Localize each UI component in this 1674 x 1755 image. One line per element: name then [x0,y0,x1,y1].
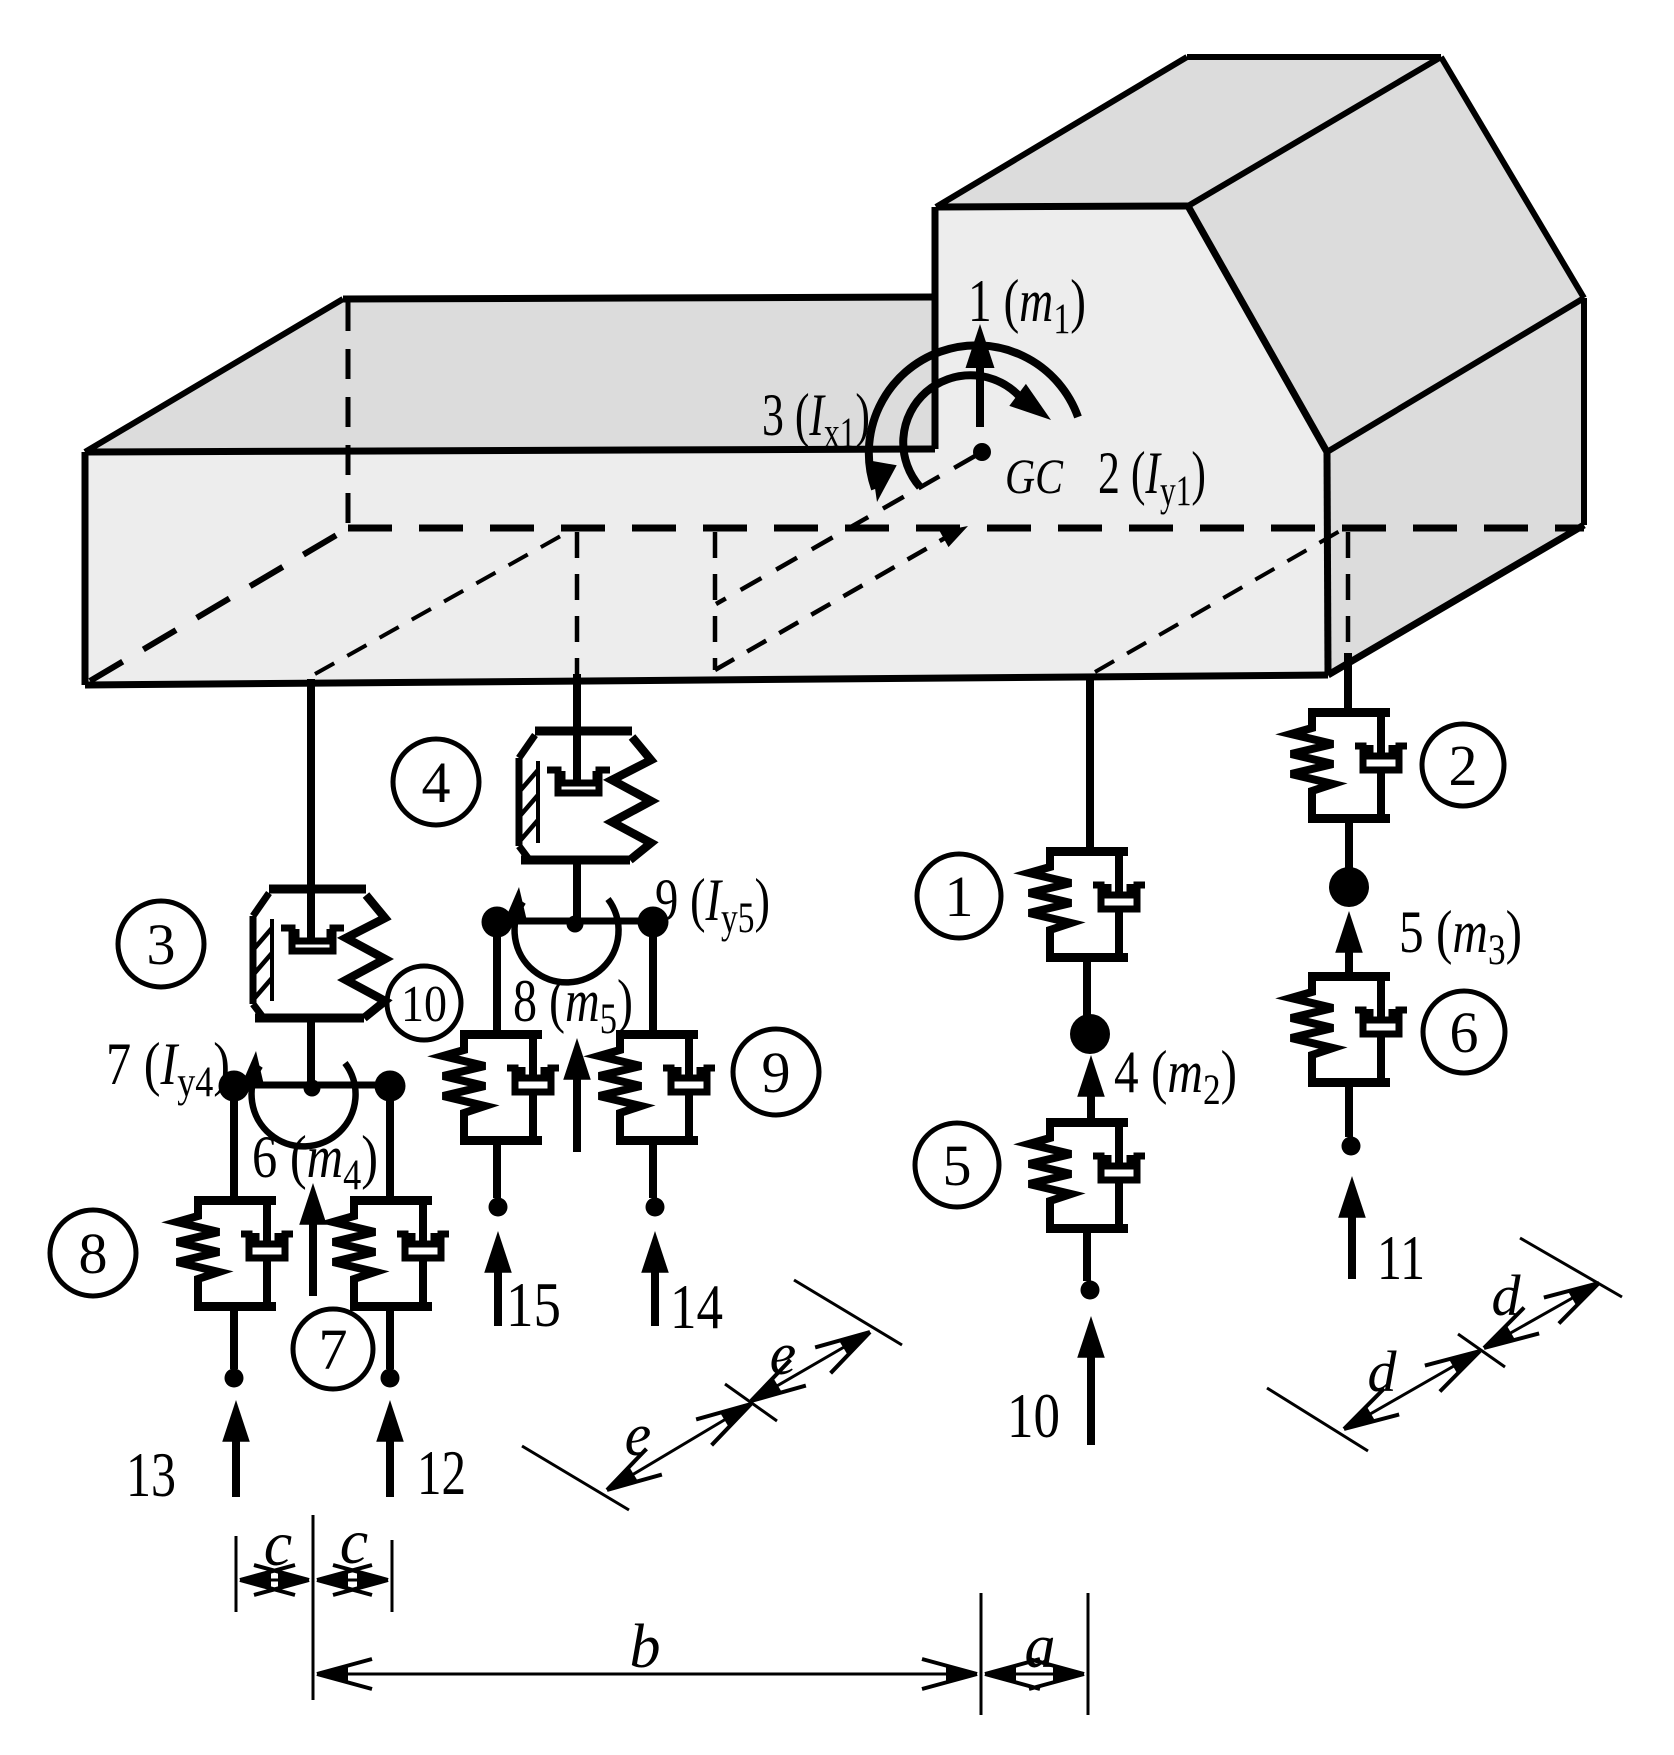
dim arrowheads b [317,1659,372,1689]
dimension b [317,1673,977,1676]
pitch arc 2 (Iy1) [903,375,1021,487]
svg-text:15: 15 [506,1269,561,1340]
wire unit 3 to pivot [307,1018,315,1085]
hidden lateral arrow on bottom face [715,534,952,670]
witness line below 12 [391,1540,394,1612]
circle label 4 [393,739,479,825]
node 14 [646,1198,665,1217]
edge: windshield slope front [1188,206,1327,452]
circle label 7 [293,1309,373,1389]
svg-text:4: 4 [422,750,451,815]
svg-text:GC: GC [1005,448,1064,504]
spring-damper unit 6 [1291,977,1407,1084]
spring-damper unit 1 [1029,852,1145,959]
circle label 9 [733,1029,819,1115]
dimension a [985,1673,1084,1676]
spring-damper unit 7 [333,1201,449,1308]
input arrow 13 [232,1438,240,1497]
wire unit 10 to node 15 [493,1145,501,1198]
hidden construction lines [315,456,1348,674]
svg-text:5 (m3): 5 (m3) [1399,899,1522,974]
witness line below 13 [235,1536,238,1612]
node 12 [381,1369,400,1388]
circle label 1 [917,854,1001,938]
svg-text:11: 11 [1377,1222,1425,1293]
input arrow 15 [494,1270,502,1326]
svg-text:c: c [340,1506,368,1577]
edge: cab top-left lateral [936,57,1187,207]
hidden edge: bottom left lateral [90,530,345,681]
hidden lateral line: axle 1-2 [1095,528,1345,672]
edge: windshield back slope [1441,57,1584,298]
edge: bed front-bottom [85,675,1328,685]
hidden lateral line: axle 3-4 [315,528,575,674]
svg-text:1: 1 [945,864,974,929]
circle label 10 [387,966,461,1040]
input arrow 14 [651,1270,659,1326]
edge: nose bottom lateral [1328,525,1584,675]
circle label 8 [50,1210,136,1296]
node 15 [489,1198,508,1217]
hidden rod of unit 4 [575,532,580,674]
dim arrowheads a [985,1659,1040,1689]
force arrow 4 (m2) [1087,1092,1095,1118]
edge: bed left vertical [82,452,89,685]
wire unit 6 to node 11 [1345,1087,1353,1137]
heave arrow 1 (m1) [976,368,984,427]
force arrow 8 (m5) [573,1078,581,1152]
svg-text:13: 13 [126,1439,176,1510]
body: cab front face [936,206,1327,452]
wire unit 2 to mass node 5 (m3) [1345,823,1353,870]
mass node 4 (m2) [1070,1014,1110,1054]
wire unit 7 to node 12 [386,1311,394,1369]
body: windshield face [1188,57,1584,452]
svg-text:7 (Iy4): 7 (Iy4) [106,1031,230,1106]
pivot bar 7 (Iy4) [219,1050,406,1146]
svg-text:6: 6 [1450,1000,1479,1065]
spring-damper unit 2 [1291,713,1407,820]
svg-text:c: c [264,1508,292,1579]
edge: nose right vertical [1581,298,1587,525]
hidden lateral line: GC axis [716,456,975,604]
wire unit 5 to node 10 [1083,1233,1091,1281]
spring-damper unit 8 [177,1201,293,1308]
svg-text:10: 10 [1007,1380,1060,1451]
svg-text:d: d [1492,1263,1522,1328]
mass node 5 (m3) [1329,867,1369,907]
roll arc 3 (Ix1) [869,345,1078,489]
wire pivot to unit 10 [493,936,501,1030]
GC dot [973,443,991,461]
svg-text:e: e [625,1402,652,1468]
wire pivot to unit 9 [649,936,657,1030]
d dimension lines [1344,1351,1480,1429]
node 11 [1342,1137,1361,1156]
body: cab roof face [936,57,1441,207]
spring-damper unit 5 [1029,1123,1145,1230]
circle label 6 [1423,991,1505,1073]
wire body to unit 1 [1086,674,1094,847]
witness line center assembly [312,1515,315,1700]
spring-damper unit 9 [599,1035,715,1142]
witness line b/a [980,1593,983,1715]
svg-text:a: a [1025,1613,1056,1681]
svg-text:8: 8 [79,1221,108,1286]
svg-text:d: d [1368,1339,1398,1404]
edge: bed front-top [85,449,935,452]
body: bed front face [85,446,1328,685]
svg-text:12: 12 [417,1437,466,1508]
witness line a right [1087,1593,1090,1715]
svg-text:6 (m4): 6 (m4) [252,1124,378,1199]
node 10 [1081,1281,1100,1300]
edge: cab/nose front-right vertical [1327,452,1328,675]
svg-text:7: 7 [319,1317,348,1382]
e dimension lines [607,1404,751,1490]
body: nose front face [1327,298,1584,675]
dim arrowheads e [599,1449,662,1503]
pivot bar 9 (Iy5) [482,886,669,982]
hidden edge: bottom back [348,525,1584,532]
edge: roof/windshield lateral [1188,57,1441,206]
circle label 5 [915,1123,999,1207]
hidden vertical below GC [713,532,718,670]
force arrow 6 (m4) [309,1222,317,1296]
svg-text:9 (Iy5): 9 (Iy5) [655,867,770,942]
dimension c right [317,1579,388,1582]
svg-text:2: 2 [1449,733,1478,798]
e dimension witness slashes [522,1446,629,1510]
dim arrowheads c [240,1565,295,1595]
wire pivot to unit 7 [386,1100,394,1196]
circle label 3 [118,901,204,987]
svg-text:4 (m2): 4 (m2) [1114,1039,1237,1114]
svg-text:10: 10 [401,976,447,1033]
force arrow 5 (m3) [1345,950,1353,972]
hidden edge: bed back-left vertical [346,301,351,527]
spring-damper unit 4 [519,731,651,860]
spring-damper unit 3 [253,889,385,1018]
svg-text:5: 5 [943,1133,972,1198]
input arrow 11 [1348,1215,1356,1279]
wire body to unit 3 [307,679,315,889]
wire unit 4 to pivot [573,860,581,921]
circle label 2 [1422,724,1504,806]
node 13 [225,1369,244,1388]
svg-text:3: 3 [147,912,176,977]
wire body to unit 4 [573,674,581,731]
edge: cab front-left vertical [932,207,939,449]
wire pivot to unit 8 [230,1100,238,1196]
input arrow 10 [1087,1355,1095,1445]
wire unit 8 to node 13 [230,1311,238,1369]
d dimension witness slashes [1267,1388,1368,1451]
edge: cab roof ridge [1187,54,1441,60]
wire body to unit 2 [1344,653,1352,708]
body: bed top face [85,297,935,452]
edge: bed back-top [343,297,935,299]
dim arrowheads d [1337,1389,1400,1442]
spring-damper unit 10 [443,1035,559,1142]
svg-text:e: e [770,1321,797,1387]
input arrow 12 [386,1438,394,1497]
svg-text:b: b [630,1613,661,1681]
wire unit 1 to mass node 4 (m2) [1083,962,1091,1018]
svg-text:14: 14 [670,1271,723,1342]
hidden rod of unit 2 [1346,532,1351,653]
wire unit 9 to node 14 [649,1145,657,1198]
dimension c left [240,1579,309,1582]
edge: hood lateral [1327,298,1584,452]
svg-text:9: 9 [762,1040,791,1105]
edge: cab front-top [936,206,1188,207]
edge: bed top-left lateral [85,299,343,452]
